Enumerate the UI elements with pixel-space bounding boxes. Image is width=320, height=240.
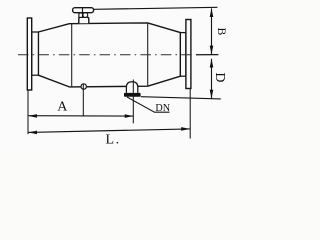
vent handle bar xyxy=(73,8,94,13)
air vent valve base on top of shell xyxy=(79,17,89,23)
body shell (cone - cylinder - cone) xyxy=(38,23,180,87)
top extension line (vent handle top level) xyxy=(94,7,218,9)
extension line from right flange down xyxy=(189,89,191,139)
svg-text:D: D xyxy=(212,72,227,82)
dimension line A with arrows xyxy=(28,114,133,118)
bottom boss circle under vent axis xyxy=(81,84,86,89)
drain flange (solid) xyxy=(124,93,141,97)
svg-text:B: B xyxy=(215,28,227,36)
vent handle divider xyxy=(82,8,84,13)
svg-text:A: A xyxy=(57,99,68,114)
weld seam left xyxy=(71,24,73,87)
right flange xyxy=(186,20,191,89)
dimension line B (vertical) with arrows xyxy=(210,8,214,54)
extension line from drain axis xyxy=(132,80,134,124)
centerline (horizontal dash-dot axis) xyxy=(18,54,196,56)
svg-text:L.: L. xyxy=(106,132,120,147)
vent ball xyxy=(83,13,88,18)
extension line from left flange down xyxy=(27,90,29,134)
dimension line D (vertical) with arrows xyxy=(210,59,214,99)
weld seam right xyxy=(147,23,149,86)
right outlet neck xyxy=(180,33,186,77)
boss axis stub down to A dimension line xyxy=(82,84,84,116)
left flange xyxy=(27,18,31,90)
drain nozzle neck xyxy=(126,82,137,93)
vent gland nut xyxy=(79,13,83,17)
svg-text:DN: DN xyxy=(155,103,170,114)
bottom extension line (drain flange bottom level) xyxy=(141,97,221,99)
left inlet step (raised neck between flange and cone) xyxy=(32,32,39,75)
dimension line L with arrows xyxy=(28,127,190,134)
DN leader line with landing xyxy=(127,97,170,112)
